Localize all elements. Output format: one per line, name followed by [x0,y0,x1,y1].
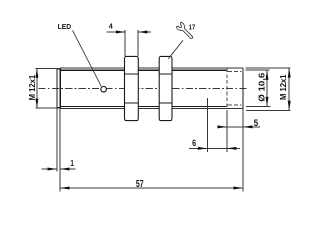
dimension 5 [218,126,260,128]
hidden line connector bottom [227,104,241,106]
svg-text:M 12x1: M 12x1 [279,74,288,100]
LED indicator circle [101,86,107,92]
centerline (axis) [38,88,247,90]
dimension M 12x1 (right, connector thread) [246,68,291,110]
svg-text:Ø 10,6: Ø 10,6 [257,72,267,101]
svg-text:17: 17 [189,22,196,31]
LED leader line [73,30,102,86]
wrench leader line to nut 2 [168,40,183,59]
wrench symbol (spanner SW17) [176,22,195,41]
barrel thread crest bottom line [60,107,243,109]
hidden edge connector step (dashed vertical) [226,69,228,109]
thread start edge [59,68,61,108]
dimension 57 (overall length) [60,187,243,189]
right face extension line (dims 5, 57) [242,108,244,191]
hidden line connector top [227,71,241,73]
svg-text:6: 6 [192,138,196,148]
front face extension line (dim 1) [56,108,58,172]
front cap edges [57,69,60,108]
barrel body top line [60,69,227,71]
barrel thread crest top line [60,67,243,69]
dimension 6 [189,147,240,149]
svg-text:5: 5 [254,118,259,129]
right face [242,68,244,108]
svg-text:1: 1 [70,158,74,168]
front face [56,69,58,108]
dimension Ø10,6 (right, body diameter) [246,70,271,106]
dimension M 12x1 (left thread) [36,68,61,108]
svg-text:LED: LED [58,22,72,31]
extension line below hidden edge (dims 5, 6) [226,110,228,152]
dimension 4 (nut width) [107,30,151,56]
thread edge extension line (dims 1, 57) [59,108,61,191]
extension line at connector groove (dim 6 left) [206,98,208,152]
svg-text:M 12x1: M 12x1 [28,74,37,100]
lock nut 2 [159,56,172,120]
dimension 1 (front lip) [42,168,76,170]
lock nut 1 [125,56,139,120]
svg-text:4: 4 [109,22,113,31]
svg-text:57: 57 [136,179,144,190]
barrel body bottom line [60,105,227,107]
